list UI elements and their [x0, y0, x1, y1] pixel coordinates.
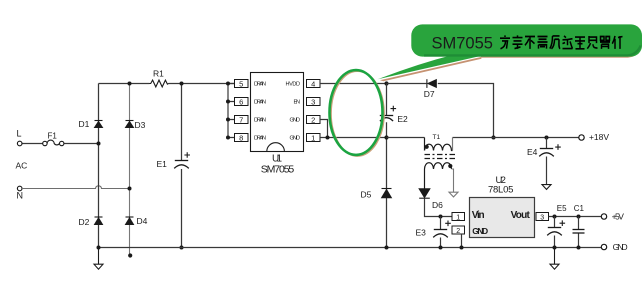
diode D2: [95, 217, 103, 225]
U1 left bus wire: [228, 84, 235, 138]
wire D7 to corner drop: [387, 84, 494, 138]
svg-text:SM7055: SM7055: [432, 34, 493, 52]
svg-text:D2: D2: [79, 217, 90, 227]
pin 7: [235, 115, 249, 124]
wire D3/D4 column: [129, 84, 131, 256]
node E1 top junction: [180, 82, 184, 86]
svg-text:+18V: +18V: [589, 132, 609, 142]
svg-text:4: 4: [311, 79, 315, 88]
diode D6: [419, 189, 430, 198]
diode D1: [95, 121, 103, 128]
svg-text:Vin: Vin: [472, 210, 485, 221]
svg-text:T1: T1: [433, 134, 441, 141]
node rail C1: [577, 246, 581, 250]
svg-text:Vout: Vout: [511, 210, 531, 221]
pin 5: [235, 79, 249, 88]
highlight ellipse: [330, 70, 383, 155]
node pin7 bus: [226, 118, 230, 122]
IC U1 body: [251, 73, 304, 152]
svg-text:1: 1: [456, 214, 460, 221]
svg-text:AC: AC: [16, 161, 28, 171]
svg-text:E5: E5: [557, 204, 567, 213]
svg-text:GND: GND: [613, 242, 628, 252]
terminal +5V: [601, 214, 606, 219]
terminal +18V: [579, 135, 584, 140]
svg-text:GND: GND: [472, 226, 488, 236]
wire E2/D5 column: [386, 84, 388, 248]
svg-text:1: 1: [311, 133, 315, 142]
highlight ellipse shadow: [331, 71, 384, 156]
callout text Chinese: 方案不需反馈环路器件: [500, 35, 623, 48]
pin 2: [307, 115, 321, 124]
svg-text:HVDD: HVDD: [286, 82, 301, 88]
wire N to bridge with hop over D1 column: [22, 186, 130, 189]
svg-text:D6: D6: [432, 200, 443, 210]
svg-text:D5: D5: [361, 189, 372, 199]
node E3 junction: [439, 215, 443, 219]
svg-text:D7: D7: [424, 89, 435, 99]
wire U2 pin2 to rail: [461, 234, 463, 248]
svg-text:E1: E1: [157, 159, 168, 169]
svg-text:SM7055: SM7055: [261, 163, 295, 175]
node pin8 bus: [226, 136, 230, 140]
svg-text:7: 7: [239, 115, 243, 124]
node rail E3: [439, 246, 443, 250]
node rail U2 gnd: [460, 246, 464, 250]
svg-text:N: N: [17, 191, 24, 201]
capacitor C1: [578, 217, 580, 248]
svg-text:2: 2: [456, 228, 460, 235]
svg-text:8: 8: [239, 133, 243, 142]
svg-text:GND: GND: [290, 136, 301, 142]
node rail left: [97, 246, 101, 250]
callout bubble: [411, 24, 642, 56]
U2 pin 1: [452, 213, 465, 222]
wire top-left from D1 column to U1 pin5: [99, 83, 235, 85]
wire E1 branch: [181, 84, 183, 248]
diode D3: [126, 121, 134, 128]
resistor R1: [150, 80, 169, 87]
terminal L: [17, 141, 22, 146]
wire pin4 to E2 node: [320, 83, 387, 85]
pin 1: [307, 133, 321, 142]
wire D1/D2 column: [98, 84, 100, 248]
svg-text:DRAIN: DRAIN: [254, 118, 266, 124]
callout tail shadow: [380, 57, 482, 81]
node E4 junction: [545, 136, 549, 140]
capacitor E2: [380, 116, 393, 122]
node rail E5: [553, 246, 557, 250]
wire T1 secondary right to ground: [452, 169, 454, 192]
diode D4: [126, 217, 134, 225]
pin 8: [235, 133, 249, 142]
U2 pin 2: [452, 226, 465, 235]
svg-text:3: 3: [540, 214, 544, 221]
wire D6 to U2 Vin: [425, 198, 453, 216]
ground symbol main: [94, 248, 103, 270]
node rail D5: [385, 246, 389, 250]
IC U2 78L05: [470, 198, 535, 238]
pin 4: [307, 79, 321, 88]
svg-text:DRAIN: DRAIN: [254, 136, 266, 142]
U1 notch: [267, 143, 285, 152]
wire pin2 to GND node: [320, 120, 328, 138]
pin 6: [235, 97, 249, 106]
node pin6 bus: [226, 100, 230, 104]
capacitor E3: [440, 217, 442, 248]
svg-text:D4: D4: [137, 216, 148, 226]
svg-text:DRAIN: DRAIN: [254, 100, 266, 106]
svg-text:E2: E2: [397, 114, 408, 124]
svg-text:78L05: 78L05: [488, 185, 514, 196]
diode D7: [427, 79, 436, 88]
svg-text:L: L: [17, 129, 22, 139]
node pin1/pin2 junction: [326, 136, 330, 140]
svg-text:F1: F1: [48, 132, 58, 141]
node mid junction E2/D5: [384, 135, 388, 139]
wire Vout to +5V: [549, 216, 602, 218]
terminal GND: [601, 244, 606, 249]
ground E4: [542, 185, 551, 190]
svg-text:6: 6: [239, 97, 243, 106]
node L-bridge junction: [97, 142, 101, 146]
fuse F1: [43, 140, 64, 146]
svg-text:D3: D3: [135, 120, 146, 130]
svg-text:DRAIN: DRAIN: [254, 82, 266, 88]
wire mid rail to +18V: [387, 137, 580, 139]
ground below rail right: [550, 248, 559, 270]
callout bubble shadow: [481, 57, 634, 58]
ground T1 secondary: [449, 192, 458, 197]
node D3 top junction: [128, 82, 132, 86]
svg-text:R1: R1: [153, 68, 164, 78]
svg-text:E3: E3: [416, 228, 427, 238]
svg-text:C1: C1: [574, 204, 585, 213]
node D7 drop junction: [492, 136, 496, 140]
node pin5 bus: [226, 82, 230, 86]
wire pin1 to GND node: [320, 137, 387, 139]
terminal N: [17, 186, 22, 191]
node N-bridge junction: [128, 187, 132, 191]
svg-text:2: 2: [311, 115, 315, 124]
node E5 top: [553, 215, 557, 219]
svg-text:+5V: +5V: [612, 211, 625, 221]
callout tail: [378, 54, 482, 79]
capacitor E4: [546, 138, 548, 185]
ground rail: [99, 247, 602, 249]
node D4 bottom end: [128, 253, 132, 257]
U1 pin labels: [254, 82, 300, 142]
svg-text:E4: E4: [527, 147, 538, 157]
svg-text:D1: D1: [79, 119, 90, 129]
wire L input to bridge: [22, 143, 99, 145]
svg-text:GND: GND: [290, 118, 301, 124]
svg-text:3: 3: [311, 97, 315, 106]
capacitor E1: [174, 161, 189, 169]
callout bubble bottom bevel: [424, 46, 641, 56]
pin 3: [307, 97, 321, 106]
node E1 bottom junction: [180, 246, 184, 250]
capacitor E5: [554, 217, 556, 248]
node C1 top: [577, 215, 581, 219]
svg-text:5: 5: [239, 79, 243, 88]
diode D5: [382, 189, 392, 198]
U2 pin 3: [536, 213, 549, 222]
node HVDD wire junction: [384, 81, 388, 85]
svg-text:EN: EN: [294, 100, 301, 106]
